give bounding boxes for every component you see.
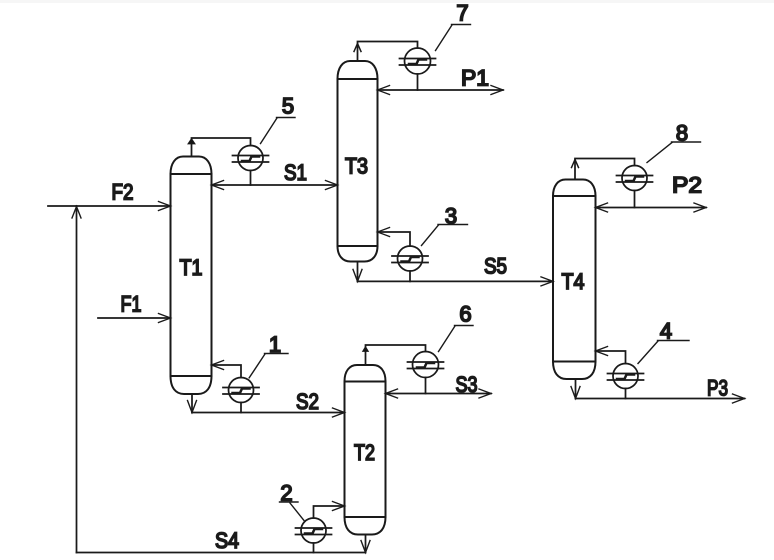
label 4 leader xyxy=(638,341,658,364)
arrow F2 into T1 xyxy=(159,202,171,211)
wire T2 bottoms stub xyxy=(365,535,367,553)
label 5 leader xyxy=(261,118,278,144)
label 2 underline xyxy=(280,501,299,503)
label 3 leader xyxy=(422,225,439,246)
column T1 top dome xyxy=(171,157,212,175)
label 1 leader xyxy=(249,354,265,378)
arrow P3 out xyxy=(733,394,745,403)
condenser 5 xyxy=(233,146,269,171)
svg-text:F1: F1 xyxy=(121,292,142,317)
wire condenser 7 outlet xyxy=(417,74,419,90)
condenser 6 xyxy=(408,352,444,378)
arrow T3 overhead up xyxy=(354,44,361,52)
wire T2 overhead vapor xyxy=(366,345,426,365)
column T4 top dome xyxy=(553,180,596,197)
svg-text:4: 4 xyxy=(660,319,672,344)
svg-text:S2: S2 xyxy=(296,389,319,414)
arrow P2 out xyxy=(694,203,706,212)
wire reboiler 2 return to T2 xyxy=(314,506,345,518)
column T4 bottom dome xyxy=(553,362,596,380)
label 3 underline xyxy=(438,224,468,226)
arrow P1 into T3 xyxy=(378,86,390,95)
arrow F1 into T1 xyxy=(159,314,171,323)
arrow reboiler return into T1 xyxy=(212,361,224,370)
wire S3 line xyxy=(386,393,492,395)
svg-text:7: 7 xyxy=(456,1,468,26)
column T2 bottom dome xyxy=(345,517,386,535)
arrow S2 into T2 xyxy=(333,408,345,417)
svg-text:5: 5 xyxy=(282,94,294,119)
svg-text:T3: T3 xyxy=(345,154,368,179)
arrow S3 out xyxy=(479,389,491,398)
wire T1 overhead vapor xyxy=(192,138,251,157)
arrow S1 into T3 xyxy=(326,181,338,190)
svg-text:S1: S1 xyxy=(284,160,307,185)
svg-text:6: 6 xyxy=(459,302,471,327)
arrow T4 bottoms down xyxy=(571,387,580,399)
label 1 underline xyxy=(265,353,289,355)
reboiler 1 xyxy=(223,378,259,403)
arrow S1 into T1 xyxy=(212,181,224,190)
svg-text:T1: T1 xyxy=(180,255,203,280)
condenser 8 xyxy=(617,166,653,191)
wire T4 reboiler return xyxy=(596,351,626,364)
svg-text:3: 3 xyxy=(445,204,457,229)
column T3 bottom dome xyxy=(338,246,378,262)
wire F2 feed line xyxy=(48,205,171,207)
reboiler 3 xyxy=(392,246,428,271)
svg-text:8: 8 xyxy=(676,121,688,146)
wire T3 bottoms stub xyxy=(357,262,359,282)
condenser 7 xyxy=(400,48,436,74)
wire reboiler 2 outlet xyxy=(313,543,315,553)
arrow T1 bottoms down xyxy=(188,401,197,413)
svg-text:2: 2 xyxy=(280,481,292,506)
wire S4 recycle riser xyxy=(76,206,78,553)
label 6 underline xyxy=(455,325,474,327)
wire condenser 6 outlet xyxy=(425,378,427,394)
label 4 underline xyxy=(658,340,690,342)
wire S1 line xyxy=(212,184,338,186)
wire P2 line xyxy=(596,207,707,209)
wire T3 overhead vapor xyxy=(358,42,418,62)
wire T4 bottoms stub xyxy=(575,379,577,399)
reboiler 4 xyxy=(608,364,644,389)
svg-text:S4: S4 xyxy=(215,528,239,553)
svg-text:S5: S5 xyxy=(484,254,507,279)
wire S4 bottom line xyxy=(77,552,366,554)
reboiler 2 xyxy=(296,518,332,543)
arrow reboiler return into T3 xyxy=(378,228,390,237)
arrow recycle up into F2 line xyxy=(72,207,81,219)
label 7 underline xyxy=(452,24,471,26)
label 2 leader xyxy=(290,503,305,522)
column T1 bottom dome xyxy=(171,376,212,394)
svg-text:F2: F2 xyxy=(112,180,134,205)
wire T1 reboiler return xyxy=(212,365,242,378)
column T2 top dome xyxy=(345,365,386,382)
wire reboiler 3 outlet xyxy=(409,271,411,281)
arrow P1 out xyxy=(491,86,503,95)
svg-text:P3: P3 xyxy=(707,376,728,401)
wire P3 line xyxy=(576,398,745,400)
label 7 leader xyxy=(436,25,453,51)
column T3 top dome xyxy=(338,61,378,79)
column T1 body xyxy=(171,157,212,395)
wire S5 line xyxy=(358,280,554,282)
wire T3 reboiler return xyxy=(378,232,411,246)
arrow reboiler 2 return into T2 xyxy=(333,502,345,511)
svg-text:S3: S3 xyxy=(456,372,478,397)
arrow reboiler return into T4 xyxy=(596,347,608,356)
wire reboiler 4 outlet xyxy=(625,389,627,399)
wire T4 overhead vapor xyxy=(575,159,635,180)
svg-text:1: 1 xyxy=(269,332,281,357)
label 8 underline xyxy=(672,141,701,143)
wire reboiler 1 outlet xyxy=(240,403,242,413)
arrow T3 bottoms down xyxy=(353,269,362,281)
column T4 body xyxy=(553,180,596,380)
arrow S5 into T4 xyxy=(541,277,553,286)
svg-text:T2: T2 xyxy=(354,440,375,465)
arrow S3 into T2 xyxy=(386,389,398,398)
svg-text:P2: P2 xyxy=(672,173,702,198)
wire F1 feed line xyxy=(98,317,171,319)
arrow T2 overhead up xyxy=(363,347,369,352)
wire condenser 8 outlet xyxy=(634,191,636,208)
column T3 body xyxy=(338,61,378,262)
wire condenser 5 outlet xyxy=(250,171,252,186)
label 5 underline xyxy=(277,117,296,119)
arrow T4 overhead up xyxy=(572,160,579,168)
svg-text:T4: T4 xyxy=(562,269,585,294)
arrow T2 bottoms down xyxy=(361,541,370,553)
wire S2 line xyxy=(192,412,345,414)
arrow T1 overhead up xyxy=(188,139,195,145)
wire T1 bottoms stub xyxy=(191,394,193,413)
wire P1 line xyxy=(378,89,504,91)
label 6 leader xyxy=(439,326,456,352)
label 8 leader xyxy=(647,143,672,163)
column T2 body xyxy=(345,365,386,535)
svg-text:P1: P1 xyxy=(461,66,489,91)
arrow P2 into T4 xyxy=(596,203,608,212)
